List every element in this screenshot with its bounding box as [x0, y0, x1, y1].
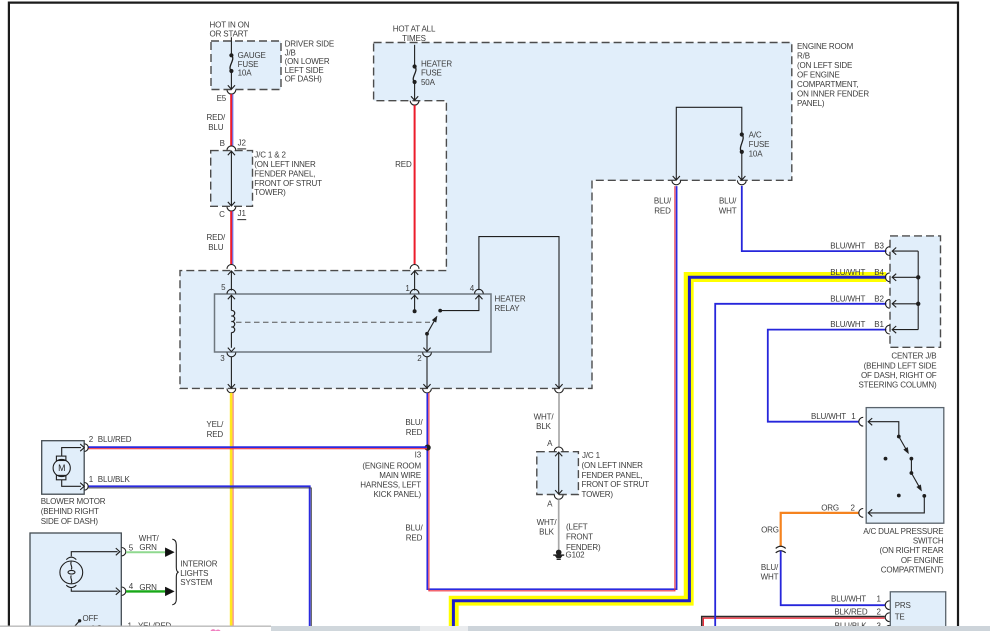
lamp circle	[60, 561, 83, 584]
engine room R/B + engine-room harness dashed region	[180, 43, 792, 389]
svg-text:J/C 1 & 2: J/C 1 & 2	[254, 151, 286, 160]
driver side J/B dashed box	[211, 41, 281, 90]
pressure switch arm 1	[899, 437, 906, 450]
wire BLU/WHT to B2	[715, 304, 886, 626]
svg-text:1: 1	[405, 284, 410, 293]
svg-text:GAUGE: GAUGE	[238, 51, 266, 60]
relay contact (pin 4)	[438, 309, 442, 313]
wire RED/BLU segment 2 (blue stripe)	[232, 211, 234, 264]
wire BLU/BLK blower (blue)	[88, 486, 310, 626]
svg-text:BLU/: BLU/	[405, 524, 423, 533]
svg-text:RED/: RED/	[207, 233, 226, 242]
wire RED	[414, 105, 416, 264]
lamp top arc	[66, 557, 76, 559]
svg-text:FRONT: FRONT	[566, 533, 593, 542]
harness-entry arc at relay region (pin5 feed)	[227, 265, 236, 269]
PRS TE connector box	[890, 592, 945, 631]
svg-text:J1: J1	[238, 209, 247, 218]
ground G102 symbol	[556, 550, 562, 556]
bottom logo blob	[210, 629, 216, 631]
arrow down inside J/C 1	[555, 490, 562, 494]
svg-text:SWITCH: SWITCH	[913, 537, 944, 546]
svg-text:OFF: OFF	[83, 614, 99, 623]
svg-text:J/B: J/B	[285, 48, 296, 57]
rotary switch OFF contact	[78, 619, 81, 622]
GRN arrowhead	[165, 587, 174, 596]
svg-text:BLU/WHT: BLU/WHT	[830, 242, 865, 251]
interior pin 5 arrow	[116, 548, 120, 555]
svg-text:TIMES: TIMES	[402, 34, 426, 43]
wire pin4 jog to WHT/BLK exit	[479, 237, 559, 389]
blower motor brush top	[56, 456, 66, 460]
svg-text:4: 4	[129, 582, 134, 591]
center J/B dashed box	[890, 236, 941, 347]
center J/B pin B1 arc	[885, 325, 889, 334]
svg-text:TOWER): TOWER)	[254, 188, 286, 197]
blower pin 1 arrow	[80, 483, 84, 490]
interior pin 5 arc	[122, 548, 126, 556]
svg-text:10A: 10A	[238, 69, 253, 78]
wire BLU/RED blower branch (blue)	[88, 446, 427, 448]
wire from HOT AT ALL TIMES feed	[414, 45, 416, 67]
svg-text:M: M	[58, 463, 65, 473]
arrow into relay at pin 1	[411, 295, 418, 299]
blower motor wire bottom	[62, 480, 81, 487]
relay pin 4 arc	[475, 289, 484, 293]
center J/B pin B2 arc	[885, 299, 889, 308]
svg-text:PANEL): PANEL)	[797, 99, 825, 108]
pressure switch pin1 internal wire	[868, 422, 899, 435]
lamp bottom arc	[66, 585, 76, 587]
svg-text:ON INNER FENDER: ON INNER FENDER	[797, 90, 869, 99]
harness-entry arc (pin1 feed)	[410, 265, 419, 269]
svg-text:RED: RED	[406, 534, 423, 543]
wire to relay pin 5	[230, 271, 232, 291]
pressure switch pin 1 arrow	[868, 418, 872, 425]
connector A arc (J/C 1 top)	[554, 447, 563, 451]
WHT/BLK exit arc	[555, 389, 564, 393]
svg-text:(LEFT: (LEFT	[566, 523, 588, 532]
highlighted wire BLU/WHT B4 (blue core)	[453, 277, 886, 626]
svg-text:B: B	[220, 139, 225, 148]
svg-text:5: 5	[129, 543, 134, 552]
center J/B internal bus	[917, 251, 919, 330]
arrow into relay region	[411, 271, 418, 275]
svg-text:WHT/: WHT/	[537, 518, 558, 527]
svg-text:ENGINE ROOM: ENGINE ROOM	[797, 42, 854, 51]
relay switch arm	[427, 321, 435, 334]
svg-text:KICK PANEL): KICK PANEL)	[373, 490, 421, 499]
svg-text:GRN: GRN	[139, 583, 157, 592]
wire GRN	[126, 590, 166, 592]
svg-text:3: 3	[220, 354, 225, 363]
svg-text:OR START: OR START	[210, 29, 249, 38]
pressure switch pin2 internal wire	[868, 496, 924, 513]
wire pin4 to contact	[440, 295, 479, 310]
svg-text:R/B: R/B	[797, 52, 810, 61]
svg-text:(ON LEFT INNER: (ON LEFT INNER	[582, 461, 644, 470]
center J/B pin B4 stub	[892, 276, 918, 278]
svg-text:5: 5	[221, 283, 226, 292]
svg-text:WHT/: WHT/	[139, 534, 160, 543]
svg-text:BLU/WHT: BLU/WHT	[830, 320, 865, 329]
svg-text:B4: B4	[874, 268, 884, 277]
pressure switch arm 2	[911, 473, 919, 487]
svg-text:TE: TE	[895, 612, 905, 621]
blower pin 2 arc	[84, 444, 88, 452]
svg-text:4: 4	[470, 284, 475, 293]
blower pin 1 arc	[84, 483, 88, 491]
svg-text:LEFT SIDE: LEFT SIDE	[285, 66, 324, 75]
svg-text:A/C: A/C	[749, 131, 762, 140]
svg-text:I3: I3	[415, 451, 422, 460]
fuse A/C FUSE 10A	[740, 132, 744, 136]
wire BLU/RED blower branch (red stripe)	[88, 448, 427, 450]
junction I3	[425, 445, 431, 451]
svg-text:J/C 1: J/C 1	[582, 451, 601, 460]
connector E5 arc	[227, 90, 236, 94]
pressure switch arm 1 arrowhead	[904, 447, 909, 453]
center J/B pin B3 stub	[892, 250, 918, 252]
wire RED/BLU segment 2 (red)	[230, 211, 232, 264]
svg-text:B3: B3	[874, 242, 884, 251]
svg-text:10A: 10A	[749, 149, 764, 158]
interior lights system brace	[172, 539, 178, 605]
svg-text:2: 2	[876, 608, 881, 617]
wire BLU/RED main run (red stripe)	[429, 186, 675, 591]
svg-text:HOT IN ON: HOT IN ON	[210, 20, 250, 29]
heater relay box	[215, 294, 492, 352]
svg-text:RELAY: RELAY	[495, 304, 521, 313]
center J/B pin B2 stub	[892, 303, 918, 305]
center J/B pin B4 arc	[885, 273, 889, 282]
svg-text:BLU/WHT: BLU/WHT	[830, 294, 865, 303]
relay switch pivot	[425, 332, 429, 336]
svg-text:HEATER: HEATER	[421, 59, 452, 68]
blower motor wire top	[62, 448, 81, 457]
arrow out of relay at pin 4	[475, 295, 482, 299]
svg-text:WHT: WHT	[761, 573, 779, 582]
svg-text:STEERING COLUMN): STEERING COLUMN)	[858, 381, 937, 390]
pressure switch pin 1 arc	[859, 417, 863, 426]
pressure switch free contact 1	[884, 457, 888, 461]
center J/B pin B2 arrow	[892, 300, 896, 307]
svg-text:1: 1	[851, 412, 856, 421]
svg-text:50A: 50A	[421, 78, 436, 87]
svg-text:A/C DUAL PRESSURE: A/C DUAL PRESSURE	[863, 527, 943, 536]
svg-text:BLU: BLU	[208, 243, 223, 252]
pressure switch node c	[910, 471, 914, 475]
center J/B pin B1 arrow	[892, 326, 896, 333]
connector A arc (J/C 1 bottom)	[554, 495, 563, 499]
bottom scrollbar light segment	[420, 626, 468, 631]
pressure switch pin 2 arc	[859, 509, 863, 518]
blower motor brush bottom	[56, 475, 66, 479]
svg-text:RED/: RED/	[207, 113, 226, 122]
svg-text:WHT: WHT	[719, 207, 737, 216]
wire pin2 to region edge	[426, 357, 428, 389]
pressure switch node b	[910, 457, 914, 461]
interior lights box	[30, 533, 121, 631]
relay contact (pin 1)	[413, 309, 417, 313]
center J/B bus junction (B4)	[916, 275, 920, 279]
svg-text:BLU: BLU	[208, 123, 223, 132]
arrow down inside J/C 1 &amp; 2	[228, 202, 235, 206]
svg-text:BLK: BLK	[539, 528, 554, 537]
svg-text:FENDER PANEL,: FENDER PANEL,	[254, 169, 315, 178]
bottom divider rule	[0, 626, 271, 627]
wire WHT/GRN	[126, 551, 166, 553]
svg-text:(ON LEFT INNER: (ON LEFT INNER	[254, 160, 316, 169]
svg-text:RED: RED	[406, 428, 423, 437]
arrow at BLU/WHT exit	[738, 176, 745, 180]
svg-text:ORG: ORG	[821, 504, 839, 513]
blower motor box	[42, 441, 84, 495]
YEL/RED exit arc	[227, 389, 236, 393]
svg-text:A: A	[547, 439, 553, 448]
svg-text:BLU/WHT: BLU/WHT	[830, 268, 865, 277]
wire jog above A/C fuse	[676, 107, 742, 180]
svg-text:RED: RED	[207, 430, 224, 439]
interior pin 4 arrow	[116, 588, 120, 595]
wire pin1 to contact	[414, 295, 416, 311]
svg-text:2: 2	[850, 504, 855, 513]
connector J1 arc	[227, 207, 236, 211]
svg-text:(ON RIGHT REAR: (ON RIGHT REAR	[880, 546, 944, 555]
fuse HEATER FUSE 50A	[413, 64, 417, 68]
svg-text:FUSE: FUSE	[421, 69, 442, 78]
wire inside J/C 1	[558, 452, 560, 495]
svg-text:PRS: PRS	[895, 601, 911, 610]
wire WHT/BLK upper	[558, 393, 560, 447]
BLU/RED pin2 exit arc	[423, 389, 432, 393]
svg-text:HEATER: HEATER	[495, 295, 526, 304]
pressure switch node d	[922, 494, 926, 498]
svg-text:OF DASH): OF DASH)	[285, 75, 323, 84]
relay switch arm arrowhead	[432, 316, 437, 322]
svg-text:FRONT OF STRUT: FRONT OF STRUT	[582, 480, 650, 489]
svg-text:A: A	[547, 500, 553, 509]
wire RED/BLU segment 1 (blue stripe)	[232, 94, 234, 146]
wire fuse to E5 exit	[230, 71, 232, 89]
BLU/WHT exit arc	[737, 180, 746, 184]
arrow to relay pin 3	[228, 348, 235, 352]
arrow at BLU/RED exit	[673, 176, 680, 180]
svg-text:LIGHTS: LIGHTS	[180, 569, 208, 578]
wire pin3 to region edge	[230, 357, 232, 389]
junction connector J/C 1 dashed box	[537, 452, 579, 495]
svg-text:(ON LOWER: (ON LOWER	[285, 57, 330, 66]
wire A/C fuse to exit	[741, 152, 743, 180]
svg-text:1: 1	[89, 475, 94, 484]
wire to relay pin 1	[414, 271, 416, 291]
center J/B pin B1 stub	[892, 329, 918, 331]
svg-text:BLU/: BLU/	[719, 197, 737, 206]
svg-text:2: 2	[417, 354, 422, 363]
svg-text:FRONT OF STRUT: FRONT OF STRUT	[254, 179, 322, 188]
wire BLU/WHT to B3	[742, 186, 887, 251]
highlighted wire BLU/WHT B4 (yellow highlight)	[454, 277, 887, 626]
svg-text:GRN: GRN	[139, 543, 157, 552]
relay pin 2 arc	[423, 352, 432, 356]
arrow to relay pin 2	[423, 348, 430, 352]
relay coil	[230, 295, 232, 310]
svg-text:YEL/: YEL/	[206, 420, 224, 429]
arrow at E5 exit	[228, 85, 235, 89]
svg-text:SIDE OF DASH): SIDE OF DASH)	[41, 517, 99, 526]
connector J2 arc	[227, 146, 236, 150]
svg-text:BLU/: BLU/	[654, 197, 672, 206]
PRS pin 1 arc	[885, 601, 889, 610]
svg-text:B2: B2	[874, 294, 884, 303]
blower motor M circle	[53, 459, 70, 476]
R/B exit arc	[410, 101, 419, 105]
svg-text:COMPARTMENT): COMPARTMENT)	[881, 565, 944, 574]
svg-text:BLK/RED: BLK/RED	[834, 608, 868, 617]
pressure switch free contact 2	[897, 494, 901, 498]
wire BLU/RED main run (blue)	[427, 186, 676, 589]
svg-text:SYSTEM: SYSTEM	[180, 578, 212, 587]
wire BLK/RED (red stripe)	[703, 618, 885, 631]
wire pivot to pin 2	[426, 334, 428, 352]
center J/B pin B3 arc	[885, 247, 889, 256]
arrow at WHT/BLK exit	[555, 384, 562, 388]
svg-text:J2: J2	[238, 138, 247, 147]
svg-text:INTERIOR: INTERIOR	[180, 559, 217, 568]
svg-text:BLU/BLK: BLU/BLK	[98, 475, 131, 484]
blower pin 2 arrow	[80, 444, 84, 451]
svg-text:MAIN WIRE: MAIN WIRE	[379, 471, 421, 480]
svg-text:G102: G102	[566, 551, 586, 560]
inline connector break (upper half)	[776, 546, 786, 548]
wire YEL/RED (yellow)	[230, 393, 233, 626]
svg-text:FUSE: FUSE	[749, 140, 770, 149]
svg-text:(ENGINE ROOM: (ENGINE ROOM	[362, 462, 421, 471]
wire ORG	[781, 513, 859, 546]
wire RED/BLU segment 1 (red)	[230, 94, 232, 146]
pressure switch arm 2 arrowhead	[917, 485, 922, 491]
wire BLK/RED (black)	[702, 617, 885, 631]
relay pin 3 arc	[227, 352, 236, 356]
svg-text:WHT/: WHT/	[534, 413, 555, 422]
interior pin 4 arc	[122, 587, 126, 595]
PRS pin 3 arc	[885, 625, 889, 631]
wire BLU/WHT to PRS pin 1	[781, 551, 885, 605]
bottom scrollbar left segment	[271, 626, 420, 631]
pressure switch link b-c	[910, 459, 912, 473]
svg-text:DRIVER SIDE: DRIVER SIDE	[285, 40, 334, 49]
lamp filament	[71, 562, 72, 584]
svg-text:C: C	[219, 210, 225, 219]
svg-text:BLK: BLK	[536, 422, 551, 431]
inline connector break (lower half)	[776, 551, 786, 553]
rotary switch arm	[73, 621, 80, 629]
svg-text:RED: RED	[395, 160, 412, 169]
A/C dual pressure switch box	[866, 408, 944, 524]
arrow into relay region	[228, 271, 235, 275]
arrow at BLU/RED exit (pin2)	[423, 384, 430, 388]
lamp wire to pin 4	[71, 588, 117, 591]
svg-text:BLU/WHT: BLU/WHT	[811, 412, 846, 421]
svg-text:COMPARTMENT,: COMPARTMENT,	[797, 80, 858, 89]
svg-text:(BEHIND LEFT SIDE: (BEHIND LEFT SIDE	[864, 361, 937, 370]
svg-text:(BEHIND RIGHT: (BEHIND RIGHT	[41, 507, 99, 516]
arrow up inside J/C 1	[555, 452, 562, 456]
center J/B pin B4 arrow	[892, 274, 896, 281]
svg-text:BLU/RED: BLU/RED	[98, 435, 132, 444]
svg-text:FENDER PANEL,: FENDER PANEL,	[582, 471, 643, 480]
relay pin 1 arc	[410, 289, 419, 293]
wire from HOT IN ON feed	[230, 37, 232, 55]
svg-text:BLOWER MOTOR: BLOWER MOTOR	[41, 497, 106, 506]
svg-text:TOWER): TOWER)	[582, 490, 614, 499]
lamp wire to pin 5	[71, 552, 117, 557]
center J/B pin B3 arrow	[892, 248, 896, 255]
junction connector J/C 1 &amp; 2 dashed box	[211, 151, 253, 207]
bottom scrollbar track	[271, 626, 990, 631]
wire BLU/BLK blower (black stripe)	[88, 488, 311, 626]
svg-text:CENTER J/B: CENTER J/B	[891, 351, 936, 360]
wire YEL/RED (red stripe)	[232, 393, 234, 626]
svg-text:BLU/WHT: BLU/WHT	[831, 595, 866, 604]
svg-text:RED: RED	[654, 207, 671, 216]
wire inside J/C 1 &amp; 2	[230, 151, 232, 207]
pressure switch node a	[897, 435, 901, 439]
svg-text:HARNESS, LEFT: HARNESS, LEFT	[360, 481, 421, 490]
arrow at R/B exit	[411, 96, 418, 100]
svg-text:BLU/: BLU/	[761, 563, 779, 572]
svg-text:ORG: ORG	[761, 525, 779, 534]
svg-text:(ON LEFT SIDE: (ON LEFT SIDE	[797, 61, 852, 70]
pressure switch pin 2 arrow	[868, 509, 872, 516]
WHT/GRN arrowhead	[165, 548, 174, 557]
PRS pin 2 arc	[885, 613, 889, 622]
relay pin 5 arc	[227, 289, 236, 293]
svg-text:B1: B1	[874, 320, 884, 329]
svg-text:OF ENGINE: OF ENGINE	[797, 71, 840, 80]
relay control dashed link	[236, 321, 430, 323]
svg-text:OF ENGINE: OF ENGINE	[901, 556, 944, 565]
svg-text:HOT AT ALL: HOT AT ALL	[393, 25, 436, 34]
arrow at YEL/RED exit	[228, 384, 235, 388]
svg-text:E5: E5	[217, 94, 227, 103]
svg-text:2: 2	[89, 435, 94, 444]
BLU/RED exit arc	[672, 180, 681, 184]
arrow into relay at pin 5	[228, 295, 235, 299]
wire fuse to exit	[414, 82, 416, 100]
fuse GAUGE FUSE 10A	[229, 53, 233, 57]
svg-text:1: 1	[876, 595, 881, 604]
center J/B bus junction (B2)	[916, 302, 920, 306]
svg-text:BLU/: BLU/	[405, 418, 423, 427]
bottom white strip	[0, 626, 271, 631]
svg-text:OF DASH, RIGHT OF: OF DASH, RIGHT OF	[861, 371, 937, 380]
wire BLU/WHT B1 to pressure switch	[768, 330, 887, 422]
wire WHT/BLK lower	[558, 499, 560, 550]
arrow up inside J/C 1 &amp; 2	[228, 151, 235, 155]
